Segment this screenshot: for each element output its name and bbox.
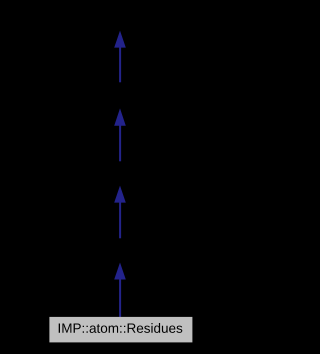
node IMP::atom::Residues (grey class box) — [49, 317, 192, 343]
inheritance arrow 2 — [114, 108, 126, 161]
label text: IMP::atom::Residues — [59, 323, 183, 333]
inheritance arrow 4 (into IMP::atom::Residues node) — [114, 263, 126, 318]
inheritance arrow 1 (topmost, edge to hidden base class) — [114, 31, 126, 83]
inheritance arrow 3 — [114, 186, 126, 239]
